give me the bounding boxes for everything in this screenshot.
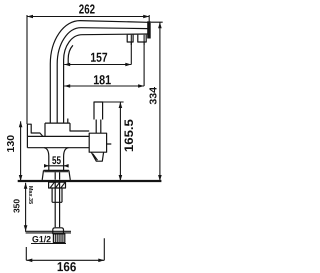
- svg-text:Max.35: Max.35: [27, 186, 33, 204]
- svg-text:130: 130: [6, 134, 17, 152]
- svg-text:55: 55: [52, 155, 61, 167]
- svg-text:350: 350: [11, 199, 21, 213]
- svg-text:157: 157: [90, 50, 107, 65]
- svg-text:G1/2: G1/2: [32, 234, 51, 244]
- svg-text:165.5: 165.5: [122, 119, 136, 152]
- svg-text:262: 262: [79, 1, 95, 16]
- svg-text:181: 181: [93, 72, 111, 87]
- svg-text:334: 334: [148, 86, 159, 104]
- svg-text:166: 166: [57, 259, 76, 273]
